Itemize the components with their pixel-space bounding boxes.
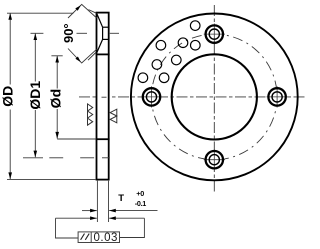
svg-text:T: T bbox=[118, 193, 124, 204]
svg-text:+0: +0 bbox=[136, 189, 144, 198]
svg-text:ØD: ØD bbox=[0, 86, 15, 107]
svg-text:90°: 90° bbox=[61, 23, 76, 43]
svg-text:-0.1: -0.1 bbox=[135, 199, 146, 208]
svg-text:Ød: Ød bbox=[48, 89, 64, 108]
svg-text:0.03: 0.03 bbox=[94, 232, 118, 244]
svg-text:ØD1: ØD1 bbox=[27, 81, 43, 110]
